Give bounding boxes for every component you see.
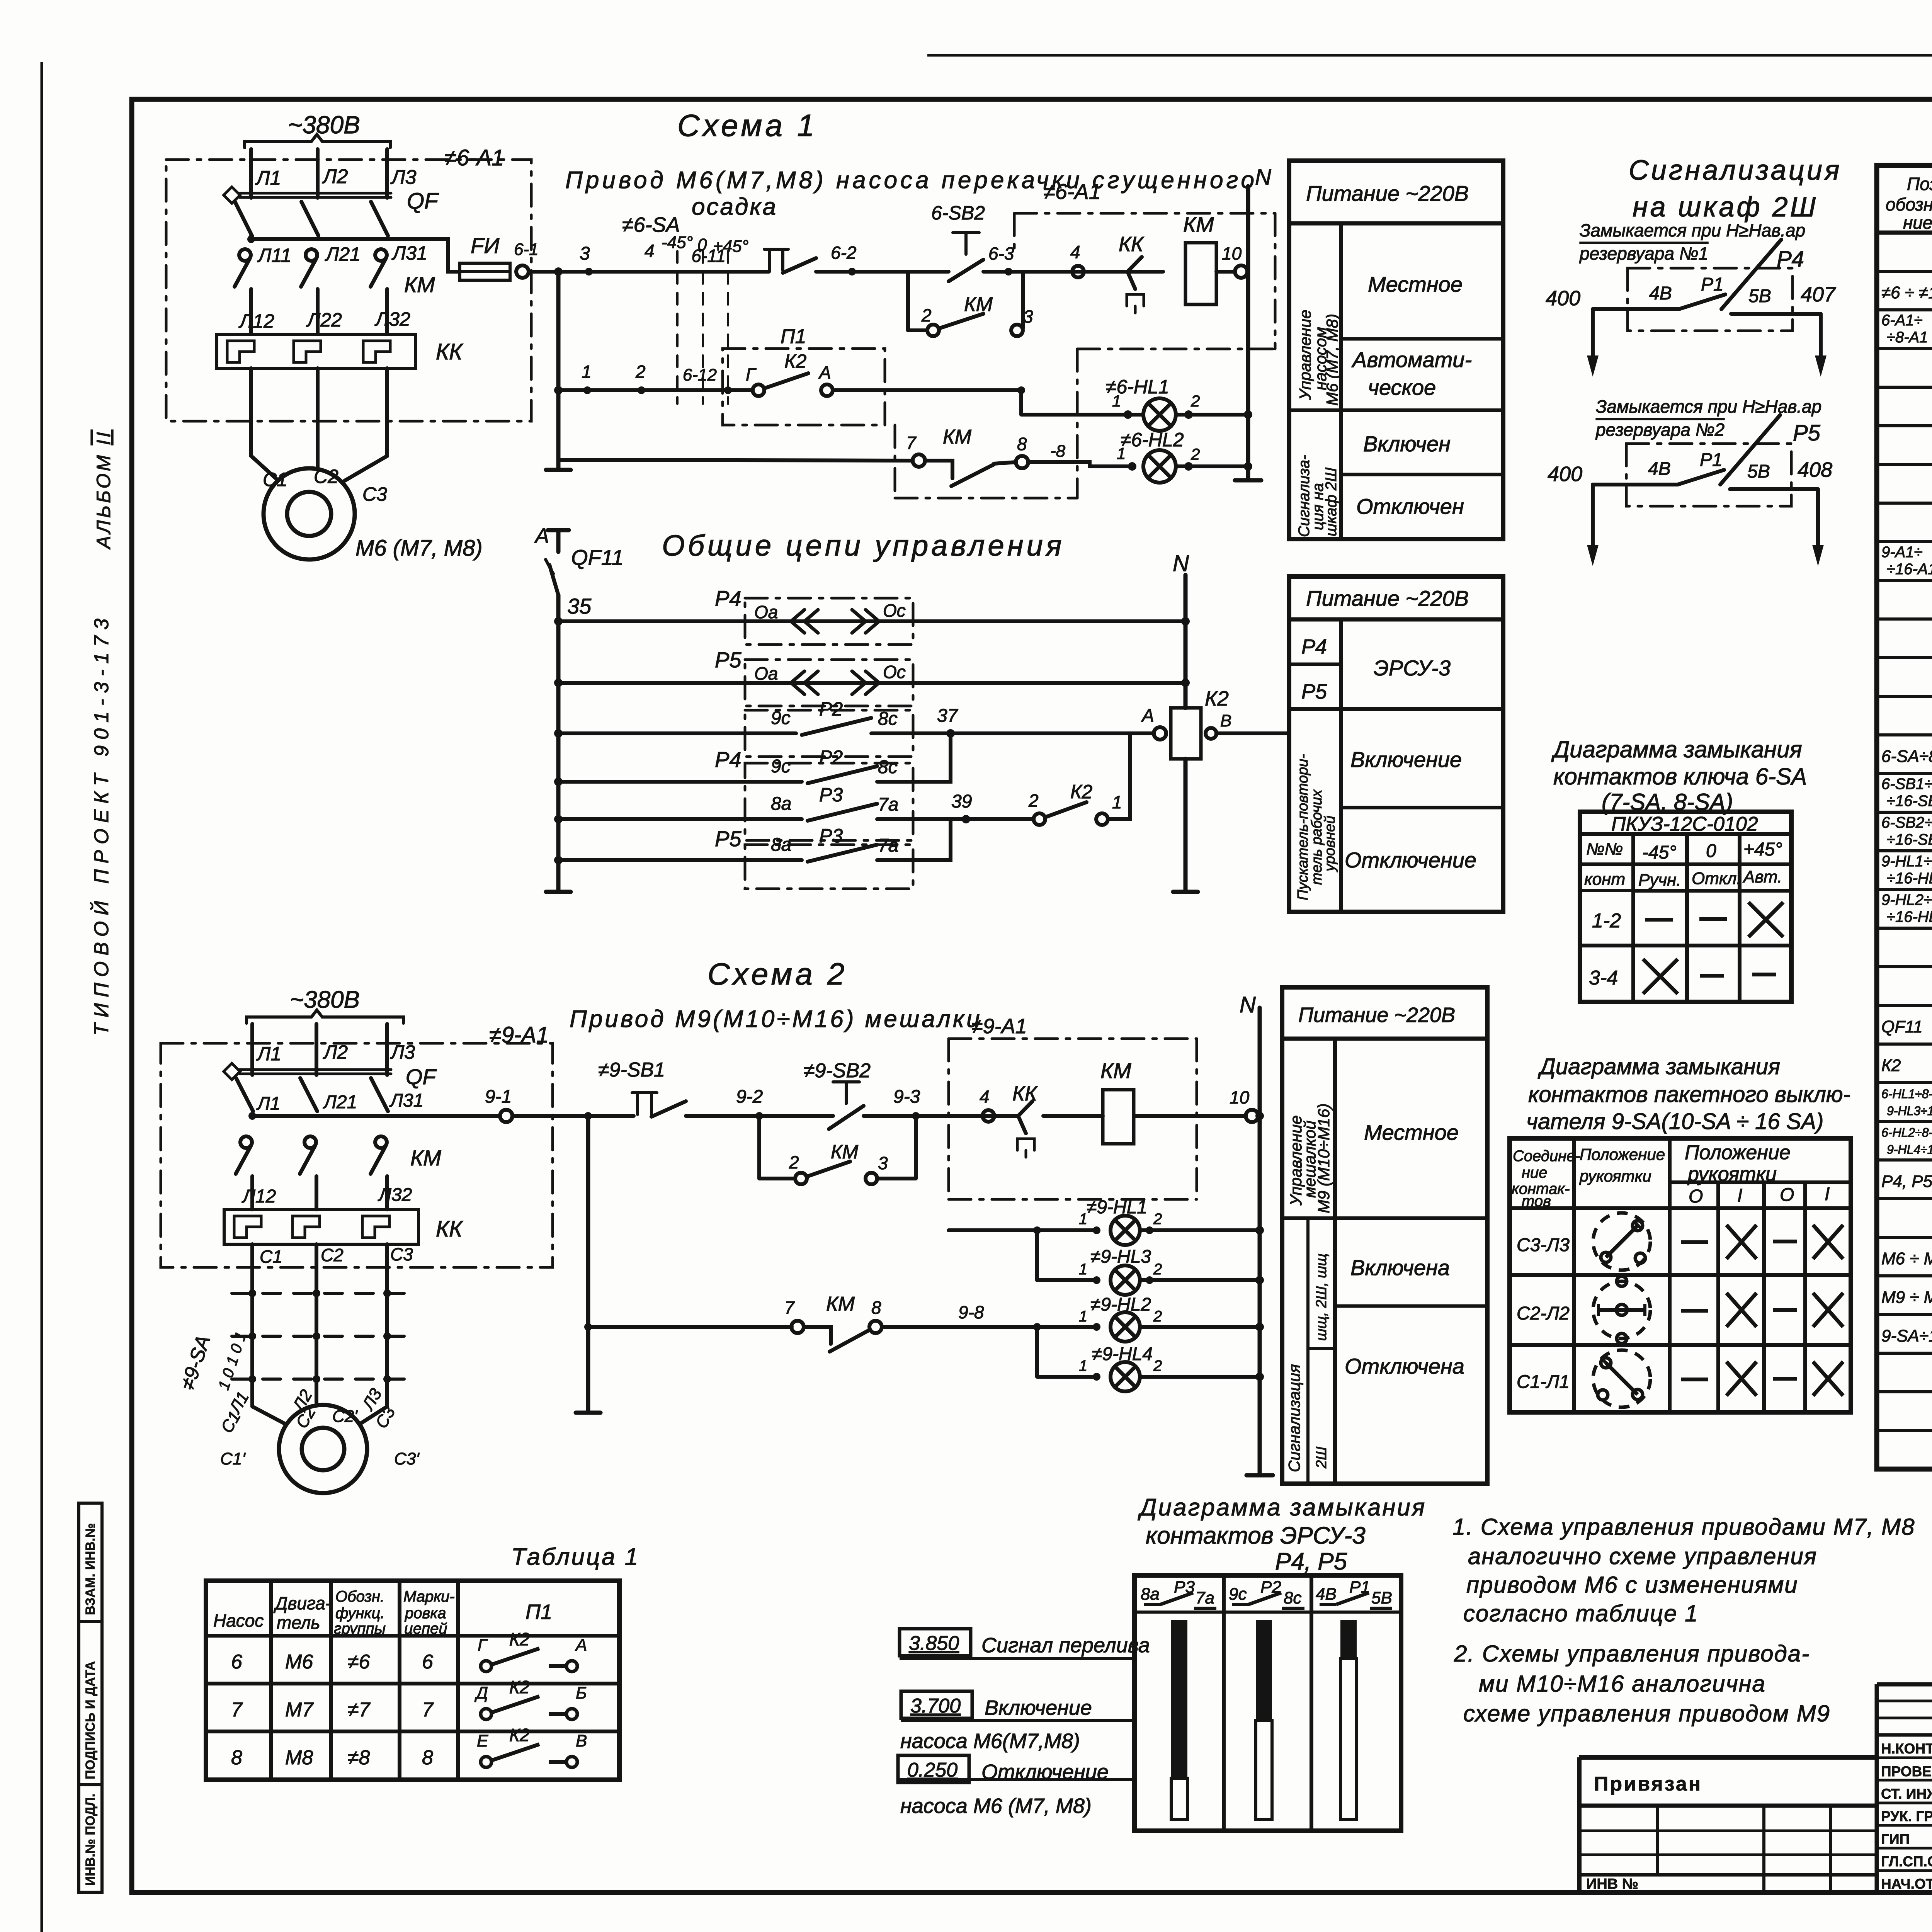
svg-text:Диаграмма замыкания: Диаграмма замыкания (1138, 1494, 1426, 1521)
contact slash (1720, 415, 1780, 485)
svg-text:чателя 9-SA(10-SA ÷ 16 SA): чателя 9-SA(10-SA ÷ 16 SA) (1526, 1109, 1823, 1134)
svg-text:6-НL2÷8-НL2: 6-НL2÷8-НL2 (1881, 1126, 1932, 1139)
svg-text:9-2: 9-2 (736, 1087, 763, 1107)
node 6-3 (1005, 268, 1012, 276)
svg-text:8: 8 (1017, 434, 1027, 454)
sensor box P3 lower (745, 845, 913, 889)
svg-text:насоса М6 (М7, М8): насоса М6 (М7, М8) (900, 1794, 1092, 1818)
svg-text:3.700: 3.700 (910, 1695, 961, 1717)
motor lead C2 (316, 368, 320, 470)
svg-text:1. Схема управления приводами: 1. Схема управления приводами М7, М8 (1452, 1514, 1915, 1540)
svg-text:6-SB2: 6-SB2 (931, 202, 985, 224)
svg-text:ВЗАМ. ИНВ.№: ВЗАМ. ИНВ.№ (83, 1523, 98, 1615)
svg-text:Отключение: Отключение (981, 1760, 1109, 1784)
svg-text:РУК. ГР.: РУК. ГР. (1881, 1808, 1932, 1824)
svg-text:Привод М6(М7,М8) насоса перека: Привод М6(М7,М8) насоса перекачки сгущен… (565, 167, 1257, 194)
svg-text:Р3: Р3 (819, 784, 843, 806)
level line 3.850 (900, 1657, 1134, 1660)
svg-text:1: 1 (582, 362, 592, 382)
svg-text:4В: 4В (1649, 283, 1672, 304)
svg-text:Сигнализация: Сигнализация (1629, 155, 1842, 186)
SEC:PIT3 (1282, 987, 1487, 1484)
svg-text:10: 10 (1230, 1087, 1250, 1107)
wire phase L2 (316, 149, 320, 198)
svg-text:М7: М7 (285, 1699, 314, 1721)
svg-text:рукоятки: рукоятки (1687, 1163, 1777, 1185)
svg-text:Р4: Р4 (1777, 247, 1804, 272)
svg-text:Сигнал перелива: Сигнал перелива (981, 1634, 1150, 1657)
svg-text:4В: 4В (1648, 459, 1671, 479)
wire row P4 sensor (558, 619, 1185, 623)
svg-text:А: А (818, 362, 831, 383)
svg-text:Замыкается при Н≥Нав.ар: Замыкается при Н≥Нав.ар (1596, 396, 1821, 417)
svg-text:QF: QF (407, 189, 439, 214)
node 9-2 (755, 1112, 763, 1120)
svg-text:1: 1 (1112, 392, 1121, 410)
motor М6 (264, 468, 355, 560)
svg-text:М6 (М7, М8): М6 (М7, М8) (1323, 314, 1341, 406)
motor lead C1 (252, 1406, 286, 1424)
wire link below QF (251, 236, 460, 272)
svg-text:≠6-НL2: ≠6-НL2 (1121, 429, 1184, 451)
contact КМ 7-8 (913, 454, 925, 467)
svg-text:≠9-НL1: ≠9-НL1 (1087, 1197, 1147, 1218)
svg-text:КК: КК (436, 339, 463, 364)
svg-text:1: 1 (1079, 1357, 1087, 1374)
svg-text:5В: 5В (1371, 1588, 1392, 1607)
SEC:PIT2 (1289, 577, 1503, 912)
svg-text:Л2: Л2 (322, 165, 348, 188)
wire row КМ 7-8 (588, 1325, 792, 1329)
switch 9-SA row 2 (232, 1335, 410, 1338)
svg-text:Р4: Р4 (715, 747, 742, 772)
SEC:SCH1 (166, 108, 1275, 561)
svg-text:Привод М9(М10÷М16) мешалки: Привод М9(М10÷М16) мешалки (570, 1006, 982, 1032)
svg-text:П1: П1 (526, 1600, 552, 1624)
svg-text:÷16-НL2: ÷16-НL2 (1887, 908, 1932, 925)
svg-text:Р4, Р5: Р4, Р5 (1881, 1172, 1932, 1191)
contact slash (1721, 240, 1781, 309)
svg-text:Р5: Р5 (1793, 420, 1821, 446)
svg-text:1: 1 (1079, 1261, 1087, 1278)
svg-text:7: 7 (231, 1699, 243, 1721)
svg-text:QF11: QF11 (571, 545, 624, 570)
svg-text:КМ: КМ (943, 426, 972, 448)
svg-text:Р2: Р2 (819, 747, 843, 768)
svg-text:Схема 1: Схема 1 (677, 108, 818, 143)
svg-text:КМ: КМ (404, 272, 435, 297)
contactor КМ pole 3 (375, 1136, 387, 1148)
svg-text:10: 10 (1222, 243, 1242, 264)
svg-text:К2: К2 (1881, 1056, 1901, 1075)
breaker QF crossbar (240, 1068, 391, 1071)
svg-text:2: 2 (1153, 1261, 1162, 1278)
svg-text:1: 1 (1079, 1308, 1087, 1325)
contact Г-К2-А (723, 388, 753, 392)
svg-text:Отключен: Отключен (1356, 494, 1464, 519)
lamp feeder wire (949, 1228, 1097, 1232)
svg-text:8: 8 (422, 1747, 433, 1769)
left control bus (556, 272, 561, 470)
sensor box P3 (745, 763, 913, 840)
svg-text:Л31: Л31 (391, 242, 427, 264)
level line 3.700 (901, 1719, 1134, 1722)
terminal А (1154, 727, 1166, 740)
svg-text:КМ: КМ (1100, 1058, 1131, 1083)
svg-text:М9 ÷ М16: М9 ÷ М16 (1881, 1288, 1932, 1307)
relay Р4 box (1628, 268, 1793, 331)
terminal 9-1 (500, 1110, 512, 1122)
svg-text:С3: С3 (362, 483, 387, 505)
svg-text:≠6 ÷ ≠16: ≠6 ÷ ≠16 (1881, 283, 1932, 302)
svg-text:В: В (1220, 711, 1231, 730)
svg-text:7: 7 (906, 433, 917, 453)
svg-text:Местное: Местное (1368, 272, 1463, 296)
svg-text:ние: ние (1903, 213, 1932, 233)
svg-text:2: 2 (789, 1152, 799, 1172)
svg-text:4: 4 (1070, 242, 1080, 262)
svg-text:М6 (М7, М8): М6 (М7, М8) (355, 536, 483, 561)
svg-text:Оа: Оа (754, 602, 778, 622)
svg-text:Положение: Положение (1685, 1141, 1791, 1164)
svg-text:М6 ÷ М8: М6 ÷ М8 (1881, 1249, 1932, 1268)
svg-text:8: 8 (871, 1298, 881, 1318)
svg-text:5В: 5В (1748, 286, 1771, 306)
svg-text:СТ. ИНЖ.: СТ. ИНЖ. (1881, 1786, 1932, 1802)
svg-text:К2: К2 (509, 1677, 530, 1697)
svg-text:Замыкается при Н≥Нав.ар: Замыкается при Н≥Нав.ар (1580, 220, 1805, 240)
svg-text:А: А (1141, 706, 1154, 726)
breaker QF pole 1 (236, 1078, 253, 1111)
SEC:CTRL (534, 524, 1289, 892)
node 6-2 (848, 268, 856, 276)
svg-text:тов: тов (1522, 1193, 1551, 1210)
svg-text:ИНВ.№ ПОДЛ.: ИНВ.№ ПОДЛ. (83, 1794, 98, 1886)
svg-text:Л1: Л1 (256, 1094, 281, 1114)
svg-text:К2: К2 (1070, 781, 1092, 803)
svg-text:согласно таблице 1: согласно таблице 1 (1463, 1600, 1699, 1626)
svg-text:Д: Д (474, 1684, 488, 1702)
svg-text:÷16-А1: ÷16-А1 (1887, 561, 1932, 578)
svg-text:6: 6 (231, 1651, 242, 1673)
key diagram table (1580, 812, 1791, 1002)
svg-text:ТИПОВОЙ ПРОЕКТ 901-3-173: ТИПОВОЙ ПРОЕКТ 901-3-173 (90, 613, 113, 1036)
svg-text:Включен: Включен (1363, 432, 1451, 456)
wire phase L2 (315, 1024, 318, 1075)
top trim line (927, 54, 1932, 57)
sensor box P4 (745, 598, 913, 645)
svg-text:6-SB1÷: 6-SB1÷ (1881, 776, 1932, 793)
svg-text:1-2: 1-2 (1592, 910, 1621, 932)
svg-text:КМ: КМ (831, 1141, 858, 1163)
switch 9-SA row 3 (232, 1378, 410, 1381)
svg-text:9с: 9с (771, 756, 791, 777)
svg-text:Откл.: Откл. (1692, 869, 1742, 888)
svg-text:≠9-SB1: ≠9-SB1 (598, 1059, 665, 1081)
svg-text:ми М10÷М16 аналогична: ми М10÷М16 аналогична (1479, 1671, 1766, 1697)
svg-text:шщ, 2Ш, шщ: шщ, 2Ш, шщ (1313, 1253, 1330, 1341)
svg-text:тель: тель (277, 1612, 320, 1633)
switch 9-SA row 1 (232, 1292, 410, 1295)
seal-in branch КМ 2-3 (906, 272, 910, 330)
svg-text:407: 407 (1801, 283, 1836, 306)
svg-text:QF11: QF11 (1881, 1017, 1923, 1036)
svg-text:КМ: КМ (826, 1293, 855, 1315)
svg-text:С3: С3 (390, 1244, 413, 1264)
svg-text:ровка: ровка (405, 1605, 446, 1622)
svg-text:КМ: КМ (964, 293, 993, 316)
svg-text:Насос: Насос (213, 1611, 264, 1631)
level box 0.250 (898, 1755, 969, 1782)
svg-text:6-SA÷8-SA: 6-SA÷8-SA (1881, 747, 1932, 766)
svg-text:9с: 9с (1229, 1585, 1247, 1604)
svg-text:4В: 4В (1316, 1585, 1337, 1604)
svg-text:408: 408 (1798, 458, 1832, 481)
wire main control (252, 1114, 500, 1118)
svg-text:КК: КК (436, 1216, 463, 1242)
breaker QF pole 2 (301, 202, 318, 236)
SEC:SIG (1546, 155, 1842, 566)
svg-text:осадка: осадка (692, 194, 777, 220)
svg-text:8с: 8с (878, 709, 898, 729)
motor М9 (279, 1405, 367, 1493)
svg-text:÷8-А1: ÷8-А1 (1887, 329, 1928, 346)
wire phase L1 (250, 1024, 254, 1075)
svg-text:2. Схемы управления привода-: 2. Схемы управления привода- (1454, 1641, 1810, 1667)
svg-text:Двига-: Двига- (273, 1593, 331, 1613)
sensor box P2 (745, 710, 913, 757)
svg-text:2: 2 (1190, 392, 1200, 410)
svg-text:÷16-SB2: ÷16-SB2 (1887, 831, 1932, 848)
svg-text:НАЧ.ОТД.: НАЧ.ОТД. (1881, 1876, 1932, 1892)
svg-text:ГЛ.СП.ОТД: ГЛ.СП.ОТД (1881, 1854, 1932, 1869)
SEC:BIGTABLE (1877, 165, 1932, 1469)
svg-text:Р5: Р5 (715, 827, 742, 851)
svg-text:М6: М6 (285, 1651, 313, 1673)
svg-text:÷16-НL1: ÷16-НL1 (1887, 870, 1932, 887)
wire row 39 (558, 817, 802, 821)
svg-text:6-11: 6-11 (691, 246, 726, 266)
svg-text:Б: Б (576, 1684, 587, 1702)
seal-in branch КМ 2-3 (757, 1116, 761, 1179)
svg-text:Р1: Р1 (1701, 274, 1724, 295)
svg-text:9-1: 9-1 (485, 1087, 512, 1107)
svg-text:2Ш: 2Ш (1313, 1447, 1330, 1469)
svg-text:группы: группы (334, 1620, 386, 1637)
wire phase drops to switch (250, 1244, 254, 1406)
svg-text:Марки-: Марки- (403, 1588, 455, 1605)
svg-text:Отключена: Отключена (1345, 1354, 1464, 1378)
svg-text:2: 2 (921, 305, 932, 325)
svg-text:~380В: ~380В (290, 986, 360, 1013)
contactor КМ pole 2 (304, 1136, 316, 1148)
svg-text:М8: М8 (285, 1747, 313, 1769)
bar P2 closed (1256, 1620, 1272, 1721)
svg-text:Л21: Л21 (325, 243, 361, 265)
svg-text:6-А1÷: 6-А1÷ (1881, 312, 1922, 329)
svg-text:ПОДПИСЬ И ДАТА: ПОДПИСЬ И ДАТА (83, 1661, 98, 1779)
svg-text:Е: Е (477, 1731, 488, 1750)
svg-text:9-НL1÷: 9-НL1÷ (1881, 853, 1932, 870)
svg-text:К2: К2 (509, 1629, 530, 1649)
svg-text:9-НL4÷16-НL4: 9-НL4÷16-НL4 (1887, 1143, 1932, 1156)
svg-text:Включение: Включение (985, 1696, 1092, 1719)
svg-text:N: N (1173, 551, 1189, 576)
svg-text:А: А (534, 524, 549, 548)
thermal relay КК block (217, 334, 415, 368)
svg-text:Л32: Л32 (378, 1185, 412, 1205)
svg-text:резервуара №2: резервуара №2 (1595, 420, 1725, 440)
svg-text:9-НL3÷16-НL3: 9-НL3÷16-НL3 (1887, 1104, 1932, 1118)
svg-text:Р5: Р5 (1301, 680, 1327, 703)
svg-text:П1: П1 (781, 325, 806, 348)
svg-text:ЭРСУ-3: ЭРСУ-3 (1374, 656, 1451, 680)
wire control main (529, 270, 769, 274)
svg-text:6-НL1÷8-НL1: 6-НL1÷8-НL1 (1881, 1087, 1932, 1101)
svg-text:Г: Г (746, 364, 757, 384)
svg-text:С2: С2 (321, 1245, 344, 1265)
signature block grid (1877, 1682, 1932, 1687)
contactor КМ pole 3 (375, 249, 387, 261)
svg-text:контактов ЭРСУ-3: контактов ЭРСУ-3 (1146, 1522, 1366, 1549)
svg-text:на шкаф 2Ш: на шкаф 2Ш (1633, 192, 1818, 223)
wire row 3 (7-8) (558, 460, 913, 461)
svg-text:Оа: Оа (754, 663, 778, 684)
svg-text:Л3: Л3 (390, 166, 417, 189)
breaker QF pole 1 (235, 202, 252, 236)
svg-text:2: 2 (1153, 1211, 1162, 1228)
svg-text:7а: 7а (878, 794, 898, 815)
svg-text:Включена: Включена (1350, 1255, 1450, 1280)
svg-text:Л12: Л12 (238, 310, 274, 332)
breaker QF pole 3 (371, 202, 388, 236)
fuse FИ (460, 263, 510, 280)
svg-text:Л3: Л3 (390, 1041, 415, 1063)
svg-text:I: I (1737, 1185, 1742, 1206)
svg-text:6-12: 6-12 (683, 366, 717, 384)
wire row 2 (1-2-6-12) (558, 388, 723, 392)
node 37 (946, 729, 955, 738)
svg-text:Л1: Л1 (256, 1043, 281, 1065)
svg-text:2: 2 (1028, 791, 1039, 811)
svg-text:≠6: ≠6 (348, 1651, 370, 1673)
svg-text:КМ: КМ (1183, 212, 1214, 236)
svg-text:К2: К2 (1205, 687, 1229, 710)
svg-text:6-2: 6-2 (831, 243, 856, 263)
svg-text:+45°: +45° (1743, 839, 1782, 860)
svg-text:39: 39 (951, 791, 972, 812)
svg-text:приводом М6 с изменениями: приводом М6 с изменениями (1466, 1572, 1798, 1598)
svg-text:Поз.: Поз. (1907, 174, 1932, 194)
breaker QF pole 2 (300, 1078, 317, 1111)
svg-text:FИ: FИ (471, 233, 500, 258)
table П1 (206, 1581, 619, 1780)
relay Р5 box (1626, 444, 1791, 506)
svg-text:контактов ключа 6-SA: контактов ключа 6-SA (1553, 764, 1807, 789)
svg-text:-45°: -45° (662, 233, 693, 252)
svg-text:35: 35 (567, 594, 592, 618)
svg-text:0: 0 (1706, 841, 1716, 861)
svg-text:≠9-А1: ≠9-А1 (971, 1015, 1027, 1038)
sensor box P5 (745, 660, 913, 706)
svg-text:С1: С1 (263, 469, 287, 490)
level box 3.850 (900, 1629, 971, 1656)
motor lead C1 (251, 368, 277, 479)
svg-text:В: В (576, 1731, 587, 1750)
svg-text:АЛЬБОМ II: АЛЬБОМ II (93, 430, 114, 550)
wire phase L3 (385, 1024, 389, 1075)
svg-text:ПРОВЕР.: ПРОВЕР. (1881, 1764, 1932, 1779)
wire row P5 sensor (558, 681, 1185, 685)
svg-text:уровней: уровней (1322, 816, 1338, 872)
node 9-3 (912, 1112, 920, 1120)
contactor КМ pole 2 (306, 249, 317, 261)
SEC:PIT1 (1289, 161, 1503, 539)
svg-text:37: 37 (937, 706, 959, 726)
svg-text:К2: К2 (784, 350, 806, 372)
svg-text:Питание ~220В: Питание ~220В (1306, 181, 1469, 206)
power legend table schema2 (1282, 987, 1487, 1484)
svg-text:QF: QF (406, 1065, 437, 1089)
svg-text:Привязан: Привязан (1594, 1773, 1702, 1795)
svg-text:4: 4 (645, 241, 655, 261)
breaker QF pole 3 (371, 1078, 388, 1111)
node 3 (585, 268, 593, 276)
svg-text:аналогично схеме управления: аналогично схеме управления (1468, 1543, 1817, 1569)
svg-text:обозначе-: обозначе- (1886, 194, 1932, 214)
svg-text:Л2: Л2 (323, 1041, 348, 1063)
svg-text:4: 4 (980, 1087, 990, 1107)
wire row P5 lower (558, 858, 802, 862)
svg-text:Таблица 1: Таблица 1 (511, 1544, 639, 1570)
wire 400-408 (1593, 483, 1678, 486)
svg-text:5В: 5В (1747, 461, 1770, 482)
svg-text:Местное: Местное (1364, 1120, 1459, 1145)
svg-text:÷16-SB1: ÷16-SB1 (1887, 793, 1932, 810)
svg-text:≠9-SB2: ≠9-SB2 (804, 1060, 871, 1082)
svg-text:ние: ние (1522, 1164, 1548, 1181)
feeder to lamps (1017, 386, 1025, 394)
svg-text:Л31: Л31 (389, 1090, 423, 1111)
svg-text:8а: 8а (1141, 1585, 1160, 1604)
contactor КМ pole 1 (240, 1136, 252, 1148)
wire phase L3 (385, 149, 389, 198)
svg-text:Ос: Ос (883, 600, 906, 621)
svg-text:Г: Г (478, 1636, 488, 1655)
contact К2 2-1 (1034, 813, 1045, 825)
block boundary 6-А1 power (166, 160, 531, 421)
svg-text:≠7: ≠7 (348, 1699, 371, 1721)
breaker QF crossbar (240, 192, 391, 195)
svg-text:Включение: Включение (1350, 747, 1462, 772)
level box 3.700 (901, 1691, 972, 1718)
svg-text:резервуара №1: резервуара №1 (1579, 243, 1708, 264)
svg-text:Положение: Положение (1580, 1145, 1665, 1163)
bar P1 closed (1340, 1620, 1357, 1658)
svg-text:400: 400 (1548, 463, 1582, 486)
Привязан table (1579, 1757, 1877, 1891)
svg-text:Л12: Л12 (241, 1186, 276, 1207)
svg-text:контактов пакетного выклю-: контактов пакетного выклю- (1528, 1082, 1850, 1107)
arrow down right (1816, 489, 1820, 553)
wire phase L1 (249, 149, 253, 198)
svg-text:ГИП: ГИП (1881, 1831, 1910, 1847)
coil К2 (1171, 708, 1201, 759)
terminal 6-1 (516, 265, 529, 278)
thermal relay КК block (224, 1209, 418, 1244)
svg-text:Р5: Р5 (715, 648, 742, 672)
svg-text:ческое: ческое (1368, 375, 1436, 400)
